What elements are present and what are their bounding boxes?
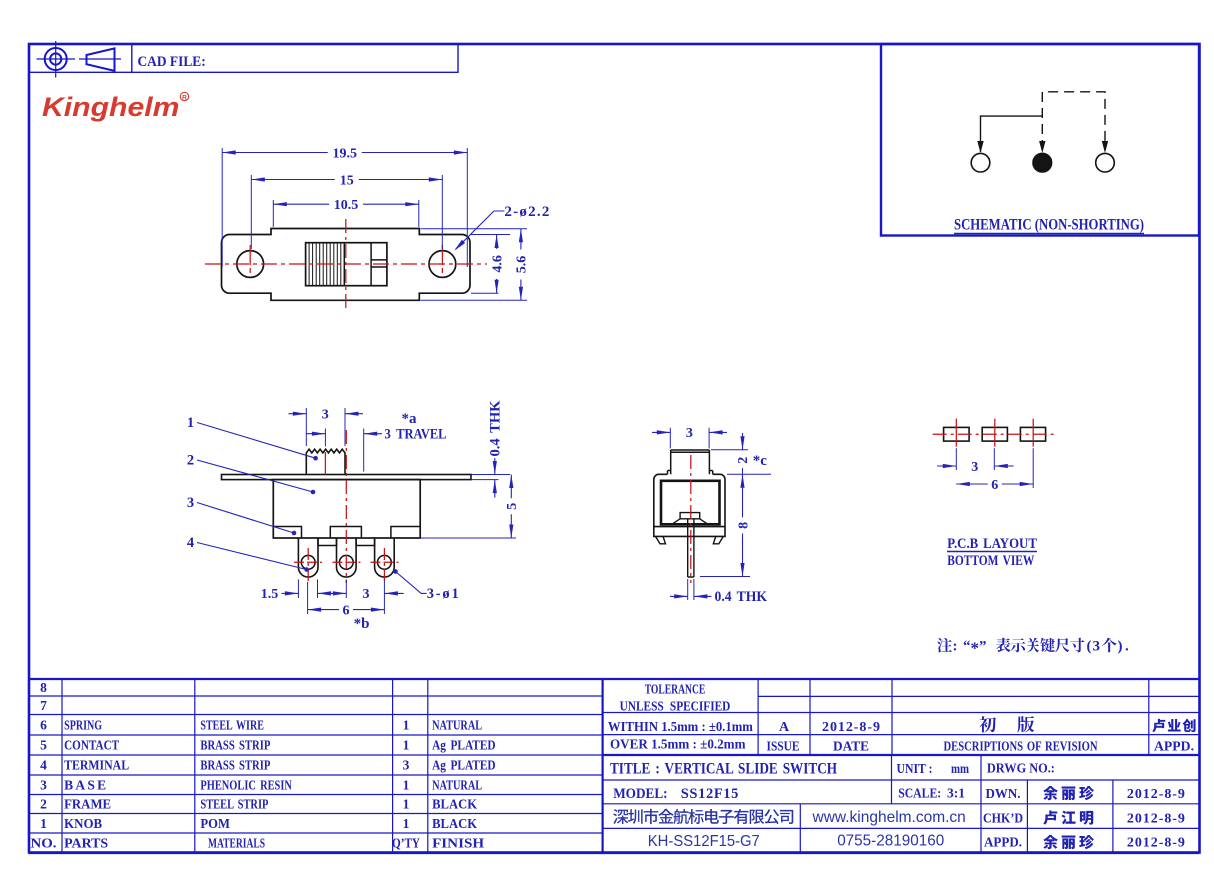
front view: tabs between pins (318, 538, 375, 546)
schematic: terminal 3 circle (1096, 153, 1115, 172)
svg-text:6: 6 (991, 478, 998, 493)
svg-text:POM: POM (200, 816, 230, 831)
svg-text:3: 3 (40, 777, 47, 792)
front view: mounting flange plate (222, 475, 472, 480)
svg-text:5.6: 5.6 (515, 256, 530, 274)
svg-text:MODEL:: MODEL: (613, 786, 667, 802)
top view: switch body outline (222, 229, 471, 301)
front view: terminal 1 pin (298, 538, 318, 577)
parts list table (29, 679, 603, 853)
svg-text:1: 1 (403, 797, 410, 812)
svg-text:BRASS STRIP: BRASS STRIP (200, 758, 270, 773)
svg-text:Kinghelm: Kinghelm (42, 92, 180, 122)
svg-text:1: 1 (403, 816, 410, 831)
title block tolerance section lines (603, 679, 1199, 755)
svg-text:TERMINAL: TERMINAL (64, 758, 129, 773)
svg-text:3: 3 (686, 426, 693, 441)
svg-text:WITHIN 1.5mm : ±0.1mm: WITHIN 1.5mm : ±0.1mm (608, 719, 754, 734)
schematic: arrow to common terminal (1039, 141, 1045, 153)
svg-text:TOLERANCE: TOLERANCE (645, 682, 706, 697)
front view: pin 3 centerline (383, 548, 385, 583)
dimension 0.4 THK (pin thickness) (687, 579, 689, 600)
top view: left mounting hole (237, 251, 264, 278)
svg-text:BLACK: BLACK (432, 816, 477, 831)
label 3 TRAVEL (363, 429, 365, 472)
svg-text:”: ” (979, 639, 987, 655)
title box: CAD FILE cell (29, 45, 458, 72)
svg-text:1: 1 (403, 717, 410, 732)
top view: slot inner lines (344, 243, 387, 286)
svg-text:*b: *b (354, 616, 370, 632)
pcb layout: horizontal centerline (933, 433, 1054, 435)
svg-text:19.5: 19.5 (333, 146, 358, 161)
svg-text:5: 5 (505, 503, 520, 510)
first-angle projection symbol: target circle (37, 41, 76, 78)
svg-text:4: 4 (40, 758, 47, 773)
top view: vertical centerline (345, 219, 347, 308)
svg-text:8: 8 (40, 680, 47, 695)
svg-text:2: 2 (40, 797, 47, 812)
top view: right hole crosshair (441, 245, 443, 283)
svg-text:SCHEMATIC (NON-SHORTING): SCHEMATIC (NON-SHORTING) (954, 217, 1144, 234)
svg-text:3: 3 (403, 758, 410, 773)
svg-text:APPD.: APPD. (1154, 739, 1194, 754)
svg-text:PARTS: PARTS (64, 836, 108, 851)
top view: horizontal centerline (205, 263, 487, 265)
svg-text:7: 7 (40, 698, 47, 713)
dimension 3 travel start tick (324, 429, 326, 447)
svg-text:1: 1 (403, 738, 410, 753)
svg-text:Ag PLATED: Ag PLATED (432, 758, 496, 773)
svg-text:BRASS STRIP: BRASS STRIP (200, 738, 270, 753)
svg-text:2: 2 (736, 457, 751, 464)
schematic: dashed throw wires (1042, 92, 1105, 150)
pcb layout: pad 3 (1020, 427, 1045, 441)
schematic: common terminal circle (filled) (1033, 153, 1052, 172)
svg-text:UNIT :: UNIT : (897, 761, 933, 776)
svg-text:1.5: 1.5 (261, 587, 279, 602)
dimension 6 (pad span) (1032, 448, 1034, 488)
front view: pin hole horizontal centerlines (294, 561, 322, 563)
svg-text:1: 1 (403, 777, 410, 792)
svg-text:NO.: NO. (31, 836, 57, 851)
svg-text:DESCRIPTIONS OF REVISION: DESCRIPTIONS OF REVISION (944, 739, 1098, 754)
dimension 15 (250, 175, 252, 249)
dimension 3 (knob width) (305, 408, 307, 446)
svg-text:APPD.: APPD. (984, 835, 1022, 850)
svg-text:mm: mm (951, 761, 970, 776)
dimension 3 (end view knob width) (669, 428, 671, 449)
svg-text:STEEL STRIP: STEEL STRIP (200, 797, 268, 812)
svg-text:4: 4 (187, 535, 194, 551)
front view: terminal 2 pin (337, 538, 357, 577)
svg-text:SPRING: SPRING (64, 717, 102, 732)
svg-text:STEEL WIRE: STEEL WIRE (200, 717, 264, 732)
end view: terminal pin (688, 519, 694, 577)
svg-text:OVER 1.5mm : ±0.2mm: OVER 1.5mm : ±0.2mm (610, 737, 746, 752)
dimension 8 (700, 576, 750, 578)
svg-text:CHK’D: CHK’D (983, 810, 1023, 825)
front view: main vertical centerline (345, 430, 347, 583)
end view: frame bottom feet (656, 536, 724, 543)
svg-text:1: 1 (187, 415, 194, 431)
svg-text:3: 3 (971, 460, 978, 475)
svg-text:Q’TY: Q’TY (392, 836, 420, 851)
svg-text:SCALE:: SCALE: (898, 786, 941, 801)
schematic: arrow to terminal 1 (977, 141, 983, 153)
svg-text:3 TRAVEL: 3 TRAVEL (385, 427, 447, 443)
top view: left hole crosshair (249, 245, 251, 283)
first-angle projection symbol: truncated cone (79, 48, 121, 70)
front view: knob with serrated top (306, 449, 345, 474)
dimension 1.5 (297, 579, 299, 598)
svg-text:BOTTOM VIEW: BOTTOM VIEW (947, 553, 1034, 569)
dimension 4.6 (471, 234, 510, 236)
svg-text:BASE: BASE (64, 777, 106, 792)
svg-text:8: 8 (736, 522, 751, 529)
svg-text::: : (953, 639, 958, 655)
dimension 5.6 (421, 228, 528, 230)
dimension 19.5 (221, 148, 223, 267)
schematic box frame (881, 44, 1199, 236)
svg-text:*c: *c (753, 453, 768, 469)
svg-text:BLACK: BLACK (432, 797, 477, 812)
svg-text:P.C.B LAYOUT: P.C.B LAYOUT (947, 536, 1037, 552)
svg-text:Ag PLATED: Ag PLATED (432, 738, 496, 753)
svg-text:4.6: 4.6 (490, 255, 505, 273)
svg-text:www.kinghelm.com.cn: www.kinghelm.com.cn (812, 809, 966, 826)
end view: vertical centerline (690, 455, 692, 583)
svg-text:NATURAL: NATURAL (432, 717, 482, 732)
svg-text:FINISH: FINISH (432, 836, 485, 851)
company row (613, 809, 793, 824)
svg-text:): ) (1118, 639, 1123, 655)
front view: body (273, 480, 420, 538)
svg-text:6: 6 (40, 717, 47, 732)
svg-text:3: 3 (322, 408, 329, 423)
svg-text:TITLE : VERTICAL SLIDE SWITCH: TITLE : VERTICAL SLIDE SWITCH (610, 761, 837, 778)
dimension 0.4 THK (flange thickness) (472, 474, 511, 476)
dimension 10.5 (272, 200, 274, 227)
svg-text:.: . (1125, 639, 1129, 655)
end view: base inner body (661, 481, 720, 525)
svg-text:3:1: 3:1 (947, 786, 965, 801)
schematic: terminal 1 circle (971, 153, 990, 172)
svg-text:3: 3 (363, 587, 370, 602)
svg-text:UNLESS SPECIFIED: UNLESS SPECIFIED (620, 699, 731, 714)
svg-text:0.4 THK: 0.4 THK (715, 589, 768, 605)
svg-text:CONTACT: CONTACT (64, 738, 119, 753)
pcb layout: pad 1 (944, 427, 970, 441)
pcb layout: pad 2 (982, 427, 1007, 441)
title block frame (603, 679, 1199, 853)
revision description: first edition (chinese) (979, 716, 996, 732)
svg-text:CAD FILE:: CAD FILE: (138, 54, 206, 70)
dimension 3 (pin pitch) (317, 579, 319, 598)
svg-text:3-ø1: 3-ø1 (427, 586, 459, 602)
svg-text:MATERIALS: MATERIALS (208, 836, 265, 851)
svg-text:2012-8-9: 2012-8-9 (1127, 811, 1185, 826)
dimension 2 *c (711, 449, 748, 451)
svg-text:FRAME: FRAME (64, 797, 111, 812)
dimension 3 (pad pitch) (955, 448, 957, 470)
svg-text:DWN.: DWN. (986, 786, 1021, 801)
svg-text:PHENOLIC RESIN: PHENOLIC RESIN (200, 777, 292, 792)
svg-text:*: * (971, 639, 980, 658)
schematic: arrow to terminal 3 (1102, 141, 1108, 153)
svg-text:NATURAL: NATURAL (432, 777, 482, 792)
svg-text:2: 2 (187, 453, 194, 469)
front view: base tab lines (273, 527, 420, 539)
svg-text:A: A (779, 720, 790, 735)
approver signature (chinese) (1152, 719, 1195, 732)
svg-text:DATE: DATE (833, 739, 869, 754)
svg-text:0.4 THK: 0.4 THK (487, 400, 503, 457)
svg-text:SS12F15: SS12F15 (681, 786, 739, 802)
svg-text:1: 1 (40, 816, 47, 831)
dimension 6 (307, 582, 309, 614)
front view: pin 1 centerline (307, 548, 309, 583)
svg-text:2-ø2.2: 2-ø2.2 (504, 204, 549, 220)
title block lower section lines (603, 755, 1199, 853)
svg-text:*a: *a (402, 411, 418, 427)
svg-text:15: 15 (340, 173, 354, 188)
svg-text:5: 5 (40, 738, 47, 753)
svg-text:2012-8-9: 2012-8-9 (1127, 836, 1185, 851)
svg-text:(: ( (1087, 639, 1092, 655)
front view: knob position centerline (324, 452, 326, 475)
end view: knob (668, 450, 713, 474)
svg-text:10.5: 10.5 (334, 198, 359, 213)
schematic: wire solid from terminal 1 to common (981, 116, 1043, 152)
svg-text:0755-28190160: 0755-28190160 (837, 832, 944, 849)
end view: base center pedestal (672, 513, 708, 525)
svg-text:3: 3 (187, 495, 194, 511)
top view: knob serrations (309, 244, 341, 286)
top view: right mounting hole (429, 251, 456, 278)
svg-text:KH-SS12F15-G7: KH-SS12F15-G7 (648, 833, 760, 850)
front view: terminal 3 pin (375, 538, 395, 577)
svg-text:DRWG NO.:: DRWG NO.: (987, 761, 1055, 776)
end view: frame outline (654, 474, 725, 536)
note: key dimensions (chinese) (937, 638, 952, 652)
svg-text:6: 6 (343, 603, 350, 618)
svg-text:2012-8-9: 2012-8-9 (1127, 787, 1185, 802)
svg-text:ISSUE: ISSUE (767, 739, 800, 754)
svg-text:2012-8-9: 2012-8-9 (822, 720, 880, 735)
svg-text:R: R (182, 95, 187, 102)
dimension 5 (body height) (421, 537, 517, 539)
svg-text:3: 3 (1093, 639, 1101, 655)
svg-text:KNOB: KNOB (64, 816, 102, 831)
top view: slider slot (306, 243, 387, 286)
pcb layout: pad centerlines vertical (955, 419, 957, 447)
